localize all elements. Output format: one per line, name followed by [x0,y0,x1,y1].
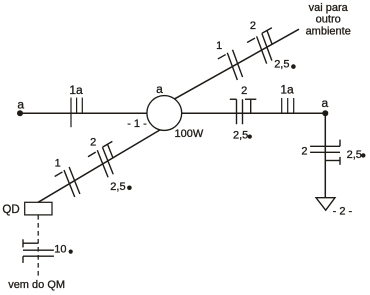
conductor marks 2x2.5 (right run): phase+neutral ticks with caps [236,99,238,124]
bullet dot after 2,5 (upper diagonal) [291,64,296,69]
svg-text:vem do QM: vem do QM [8,279,65,291]
conductor marks 1 (lower diagonal) [64,170,75,197]
conductor marks 2x2.5 (vertical drop) [310,145,340,147]
svg-text:- 1 -: - 1 - [127,118,147,130]
wire dashed feeder from QM [37,215,39,277]
svg-text:2,5: 2,5 [274,59,289,71]
wire lower diagonal from QD [38,130,160,202]
distribution board QD (rectangle) [25,202,52,215]
conductor marks 1a (left run): return ticks [70,98,72,128]
svg-text:2: 2 [301,146,307,158]
svg-text:2,5: 2,5 [347,149,362,161]
svg-text:1: 1 [216,40,222,52]
node a (right junction) [322,110,328,116]
conductor marks 1a (right run): return ticks [281,98,283,114]
wire left horizontal run [20,112,147,114]
svg-text:a: a [17,97,24,111]
svg-text:100W: 100W [175,128,204,140]
lamp E1 (incandescent 100W) outline [147,96,182,131]
bullet dot after 2,5 (right run) [248,135,252,139]
wire right horizontal run [182,112,326,114]
bullet dot after 2,5 (vertical drop) [361,153,365,157]
svg-text:2,5: 2,5 [233,130,248,142]
wire vertical drop (circuit 2) [324,113,326,197]
circuit 2 drop symbol (open triangle) [316,198,335,211]
svg-text:1: 1 [55,158,61,170]
node a (left endpoint) [17,110,23,116]
svg-text:1a: 1a [280,83,294,97]
conductor marks 2x2.5 (upper diagonal) [257,36,267,63]
svg-text:2: 2 [90,137,96,149]
svg-text:QD: QD [2,204,19,216]
wire upper diagonal to other room [175,29,299,99]
svg-text:a: a [156,82,163,96]
bullet dot after 2,5 (lower diagonal) [127,186,132,191]
svg-text:1a: 1a [69,83,83,97]
svg-text:2,5: 2,5 [110,181,125,193]
svg-text:outro: outro [316,14,341,26]
conductor marks 2x2.5 (lower diagonal) [97,150,108,177]
svg-text:vai para: vai para [309,2,349,14]
svg-text:2: 2 [241,85,247,97]
conductor marks 2x10 (feeder): ticks with caps [23,255,54,257]
bullet dot after 10 (feeder) [69,250,73,254]
svg-text:ambiente: ambiente [306,25,351,37]
svg-text:10: 10 [54,244,66,256]
svg-text:2: 2 [250,20,256,32]
svg-text:- 2 -: - 2 - [333,206,353,218]
conductor marks 1 (upper diagonal) [227,53,237,80]
svg-text:a: a [321,96,328,110]
